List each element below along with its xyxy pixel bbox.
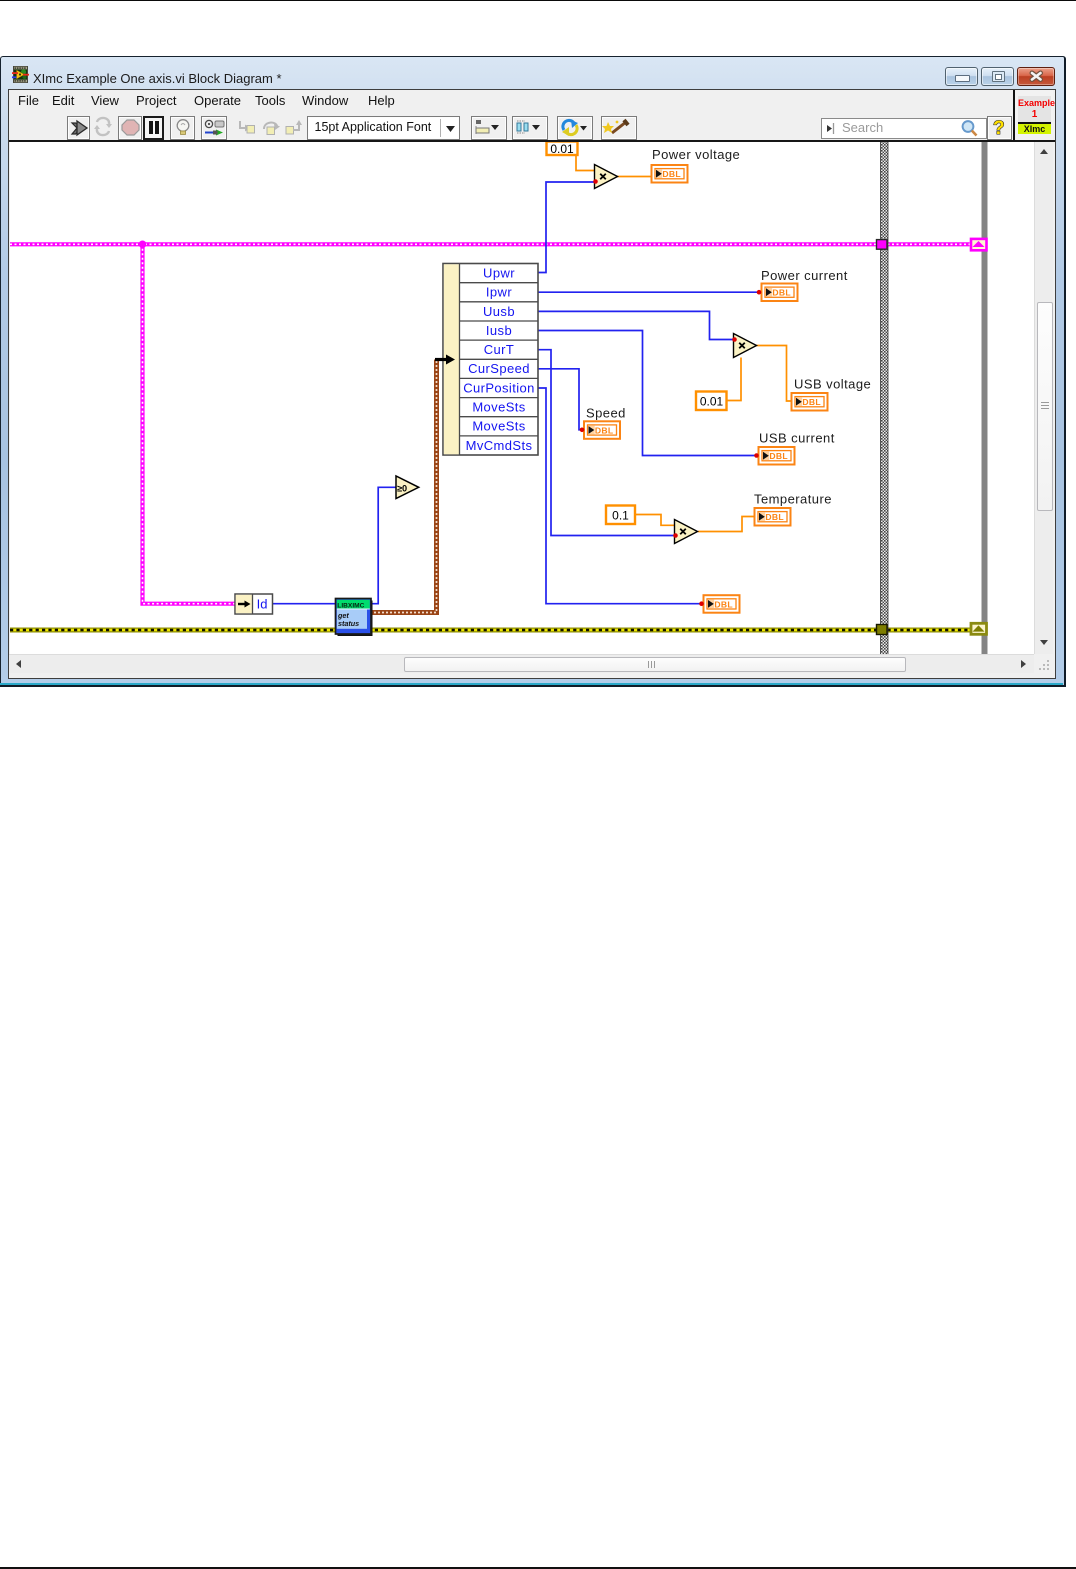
horizontal scrollbar xyxy=(9,654,1034,673)
align objects dropdown xyxy=(471,116,507,140)
shift register (cluster, magenta) xyxy=(971,239,987,250)
svg-text:Ipwr: Ipwr xyxy=(486,285,512,300)
wire: CurPosition to lower DBL xyxy=(538,388,703,604)
wire: multiply 3 to Temperature xyxy=(698,517,754,532)
svg-text:?: ? xyxy=(993,118,1005,138)
distribute objects dropdown xyxy=(512,116,548,140)
wire: Upwr to multiply xyxy=(538,182,595,273)
step out button (disabled) xyxy=(283,116,307,140)
indicator position (unlabeled DBL) xyxy=(704,595,740,613)
help button xyxy=(987,116,1012,140)
highlight execution button xyxy=(170,116,195,140)
svg-text:MoveSts: MoveSts xyxy=(472,419,525,434)
maximize button xyxy=(981,67,1014,86)
toolbar xyxy=(9,111,1013,140)
svg-text:Uusb: Uusb xyxy=(483,304,515,319)
wire: error cluster (yellow/black dashed) left segment xyxy=(10,628,876,633)
wire: settings cluster (magenta dashed), segment between structures xyxy=(888,242,970,246)
VI icon pane (Example 1 / XImc) xyxy=(1013,90,1053,140)
retain wire values button xyxy=(201,116,227,140)
wire: Iusb to USB current xyxy=(538,331,758,456)
toolbar dark separator xyxy=(9,140,1055,142)
wire: CurT to multiply 3 xyxy=(538,350,675,536)
wire: multiply 2 to USB voltage xyxy=(756,346,791,402)
shift register (error, olive) xyxy=(971,623,987,634)
unbundle by name node xyxy=(443,264,538,456)
font selector xyxy=(307,116,460,140)
run button xyxy=(67,116,90,140)
menu bar xyxy=(9,90,1013,111)
clean up diagram button xyxy=(601,116,637,140)
title text xyxy=(33,71,282,86)
pause button xyxy=(143,116,164,140)
wire: Ipwr to Power current xyxy=(538,291,761,293)
get_status subVI (LIBXIMC) xyxy=(336,599,373,637)
wire: error cluster right segment xyxy=(888,628,972,633)
indicator Temperature xyxy=(755,508,791,526)
wire: Id to get_status xyxy=(273,603,337,605)
svg-text:MvCmdSts: MvCmdSts xyxy=(466,438,533,453)
vertical scrollbar xyxy=(1034,142,1053,654)
svg-text:Temperature: Temperature xyxy=(754,492,832,507)
wire: magenta branch down to Id unbundle xyxy=(143,244,237,603)
magenta tunnel on sequence border xyxy=(877,240,888,250)
coercion dots xyxy=(580,179,762,606)
svg-text:Speed: Speed xyxy=(586,406,626,421)
svg-text:Upwr: Upwr xyxy=(483,266,515,281)
indicator USB current xyxy=(759,447,795,465)
multiply node 3 xyxy=(675,520,698,544)
svg-text:Iusb: Iusb xyxy=(486,323,512,338)
bottom page rule xyxy=(0,1567,1076,1569)
wire: 0.01 to multiply 1 (orange) xyxy=(576,148,595,171)
wire: multiply 1 to Power voltage xyxy=(617,176,651,178)
svg-text:Power voltage: Power voltage xyxy=(652,147,740,162)
while loop right border (gray) xyxy=(982,142,988,655)
window content xyxy=(8,89,1056,679)
comparison node >=0 xyxy=(396,476,419,499)
multiply node 2 xyxy=(734,334,757,358)
svg-text:≥0: ≥0 xyxy=(397,484,407,494)
constant 0.01 (second) xyxy=(696,392,727,411)
svg-text:0.1: 0.1 xyxy=(612,509,629,523)
svg-text:LIBXIMC: LIBXIMC xyxy=(337,602,364,609)
wire: status cluster (brown dashed) from get_status to unbundle xyxy=(370,360,437,613)
wire: 0.01 (2) to multiply 2 xyxy=(726,358,741,401)
top page rule xyxy=(0,0,1076,1)
indicator Speed xyxy=(584,421,620,439)
svg-text:USB current: USB current xyxy=(759,431,835,446)
wire: CurSpeed to Speed xyxy=(538,369,584,430)
cyan inner edge at window bottom xyxy=(0,683,1063,685)
svg-text:USB voltage: USB voltage xyxy=(794,377,871,392)
wire: Uusb to multiply 2 xyxy=(538,311,734,339)
wire: settings cluster (magenta dashed), horizontal left segment xyxy=(10,242,877,246)
multiply node 1 xyxy=(595,165,618,189)
title bar VI icon xyxy=(12,66,29,83)
step into button (disabled) xyxy=(234,116,258,140)
corner resize grip xyxy=(1034,654,1053,676)
minimize button xyxy=(945,67,978,86)
diagram area xyxy=(10,142,1034,654)
flat sequence border (hatched bar) xyxy=(881,142,889,655)
junction on magenta wire xyxy=(139,241,147,249)
svg-text:Id: Id xyxy=(257,597,268,612)
search box xyxy=(821,118,987,139)
svg-text:0.01: 0.01 xyxy=(700,395,724,409)
reorder dropdown xyxy=(557,116,593,140)
svg-text:CurT: CurT xyxy=(484,342,515,357)
svg-text:Power current: Power current xyxy=(761,268,848,283)
svg-text:CurSpeed: CurSpeed xyxy=(468,361,530,376)
indicator Power voltage xyxy=(652,165,688,183)
LabVIEW window xyxy=(0,56,1066,687)
svg-text:MoveSts: MoveSts xyxy=(472,400,525,415)
step over button (disabled) xyxy=(259,116,283,140)
constant 0.1 xyxy=(606,506,635,525)
svg-text:0.01: 0.01 xyxy=(550,142,574,156)
svg-text:status: status xyxy=(338,619,359,628)
indicator Power current xyxy=(762,284,798,302)
wire: get_status result to comparison xyxy=(371,487,396,603)
olive tunnel on sequence border xyxy=(877,625,888,635)
indicator USB voltage xyxy=(792,393,828,411)
abort button (disabled) xyxy=(118,116,142,140)
wire: 0.1 to multiply 3 xyxy=(635,515,675,526)
svg-text:CurPosition: CurPosition xyxy=(463,380,535,395)
close button xyxy=(1017,67,1055,86)
constant 0.01 (top) xyxy=(547,142,578,156)
run continuously button (disabled) xyxy=(90,116,114,140)
Id unbundle node xyxy=(235,594,273,614)
input arrow into unbundle xyxy=(435,355,455,365)
